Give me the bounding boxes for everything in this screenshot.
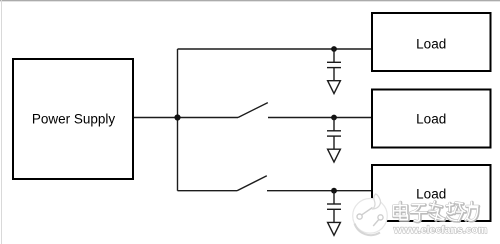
svg-text:Power Supply: Power Supply <box>32 112 116 127</box>
svg-text:Load: Load <box>416 37 446 52</box>
svg-text:Load: Load <box>416 112 446 127</box>
svg-text:Load: Load <box>416 187 446 202</box>
svg-text:www.elecfans.com: www.elecfans.com <box>393 224 488 236</box>
